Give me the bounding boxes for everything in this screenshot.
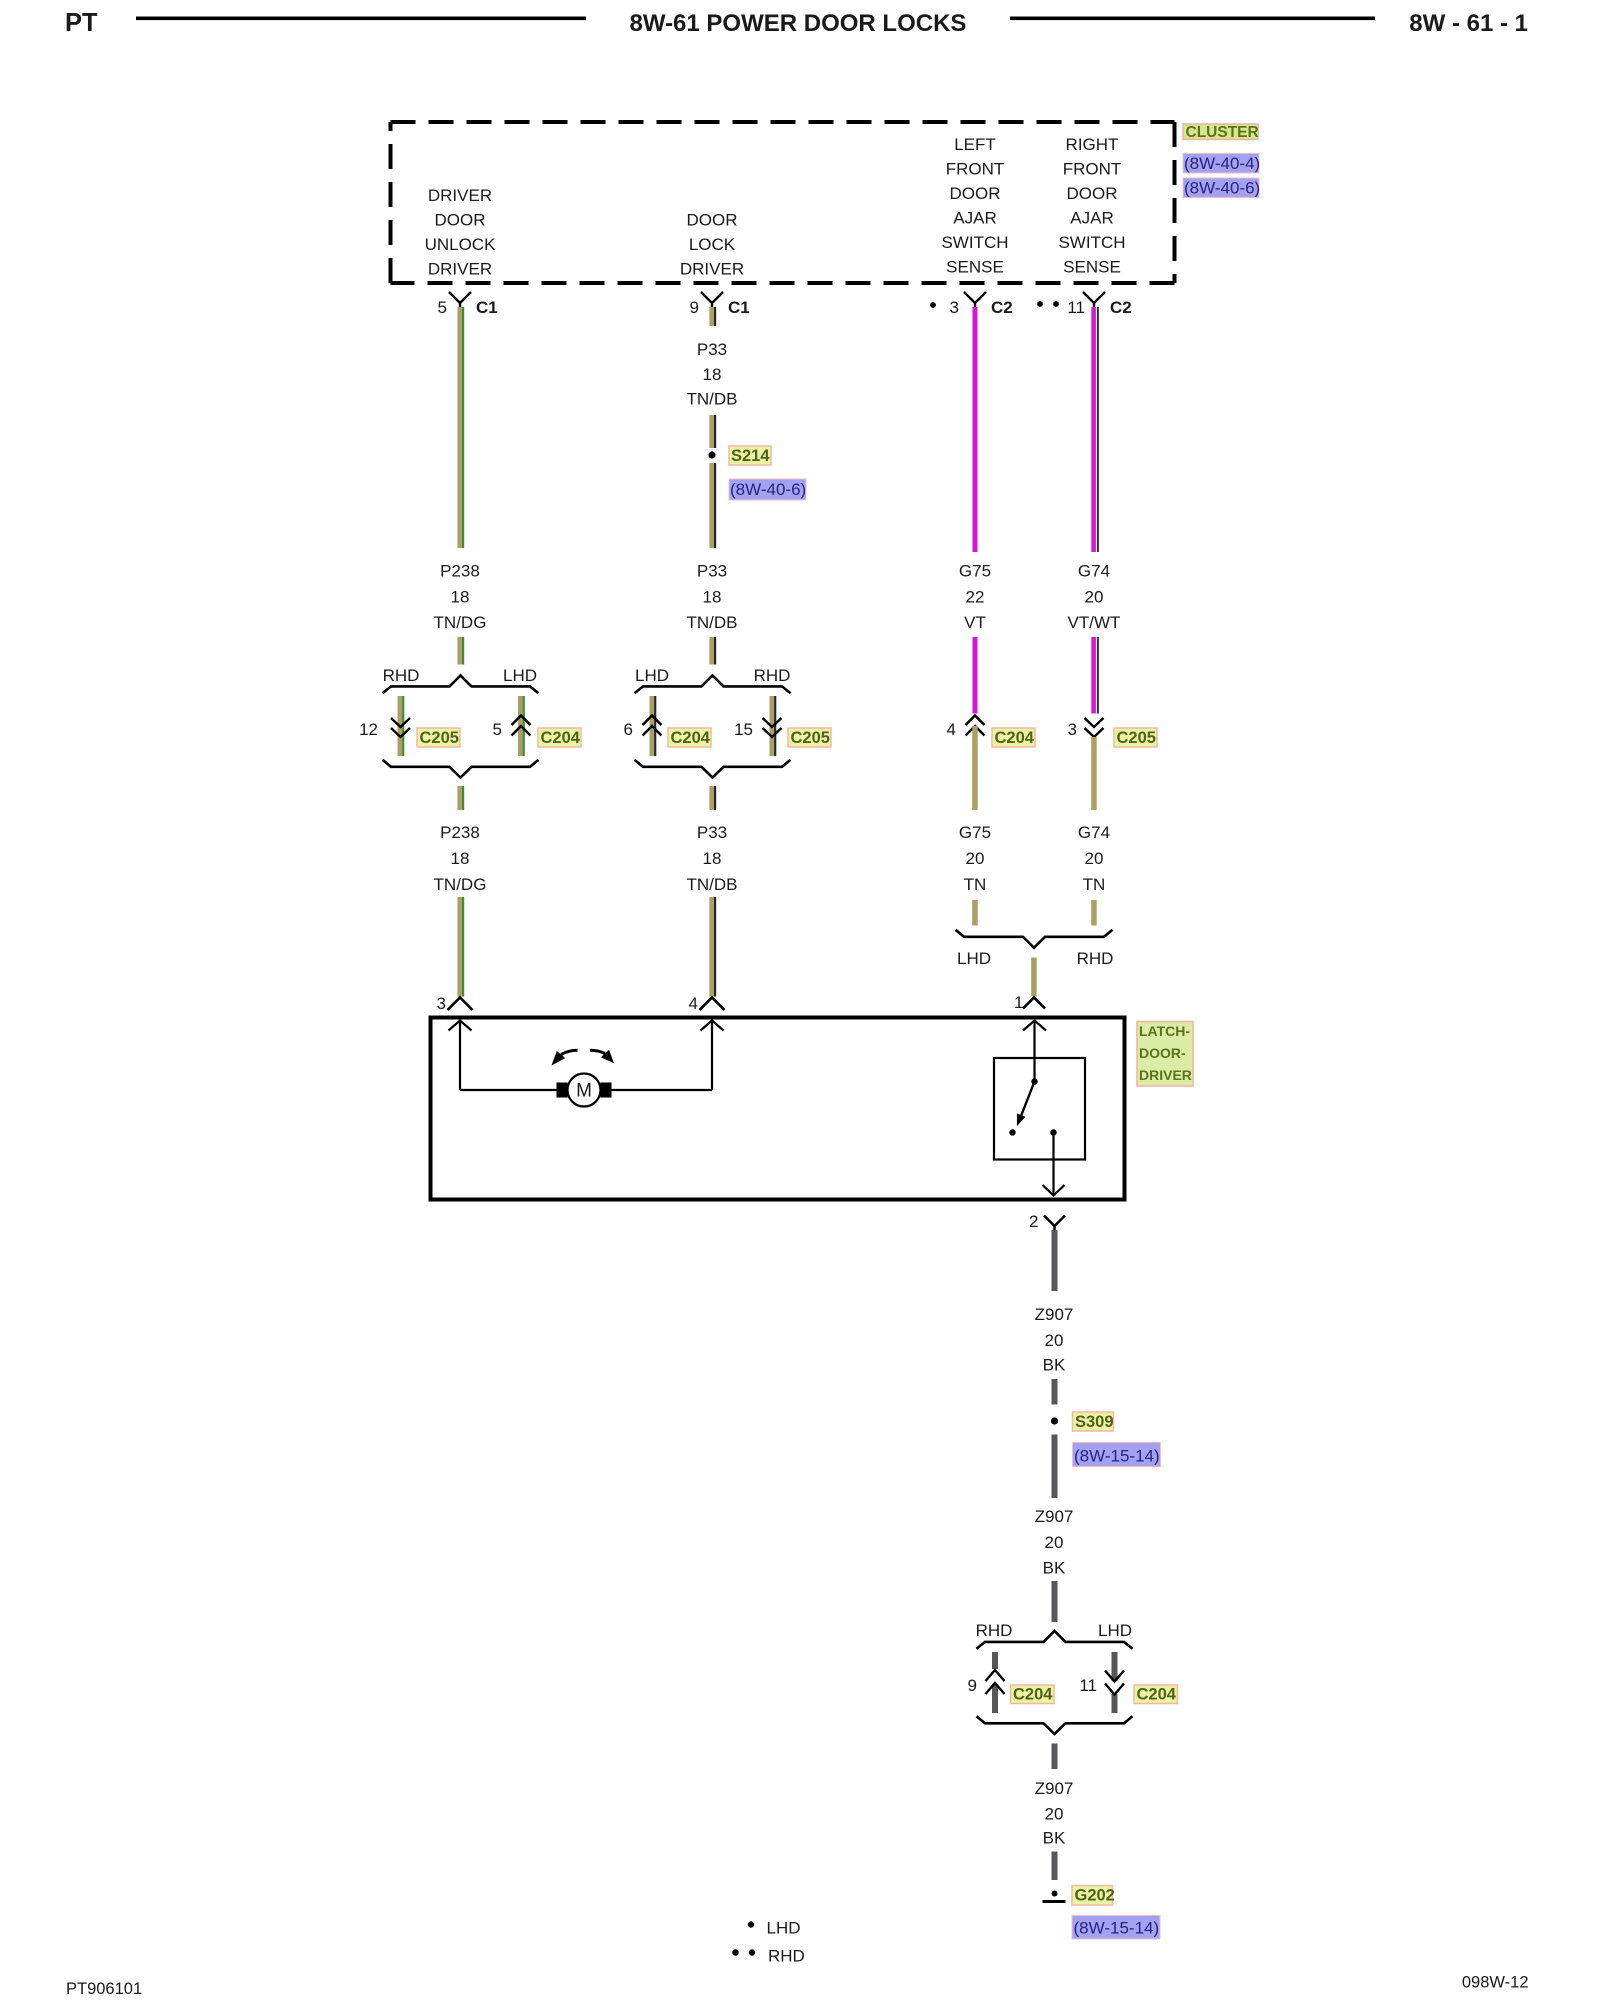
wire G75 short tan segment above merge — [972, 900, 978, 926]
svg-text:UNLOCK: UNLOCK — [425, 235, 497, 254]
cluster pin function text: driver door unlock driver — [425, 186, 497, 279]
motor rotation arrows — [552, 1050, 615, 1066]
connector C204 pin 11 (down chevrons) — [1079, 1671, 1124, 1696]
splice S214 reference 8W-40-6 — [729, 479, 806, 500]
svg-text:BK: BK — [1043, 1356, 1066, 1375]
svg-text:C204: C204 — [671, 729, 711, 747]
svg-text:4: 4 — [689, 994, 698, 1013]
svg-text:DOOR: DOOR — [950, 184, 1001, 203]
svg-text:11: 11 — [1079, 1676, 1097, 1695]
wire Z907 label 2 — [1035, 1507, 1074, 1578]
svg-text:DOOR: DOOR — [687, 211, 738, 230]
svg-text:G74: G74 — [1078, 562, 1110, 581]
latch pin 4 connector chevron — [689, 994, 725, 1013]
svg-text:12: 12 — [359, 720, 378, 739]
svg-text:DRIVER: DRIVER — [1139, 1067, 1192, 1083]
svg-text:(8W-40-4): (8W-40-4) — [1184, 154, 1260, 173]
svg-text:22: 22 — [966, 588, 985, 607]
svg-text:FRONT: FRONT — [946, 160, 1005, 179]
svg-text:C204: C204 — [1137, 1686, 1177, 1704]
cluster component label — [1183, 124, 1259, 141]
latch-door-driver box — [431, 1018, 1125, 1200]
connector pin 2 fork below latch — [1029, 1212, 1065, 1231]
wire branch RHD to C205 pin 15 — [770, 696, 777, 756]
svg-text:DOOR: DOOR — [1067, 184, 1118, 203]
wire Z907 segment 3 — [1052, 1435, 1058, 1499]
wire P33 segment below splice — [709, 463, 716, 548]
svg-text:LEFT: LEFT — [954, 135, 996, 154]
svg-text:20: 20 — [1045, 1331, 1064, 1350]
wire Z907 segment 4 — [1052, 1581, 1058, 1622]
svg-text:TN/DB: TN/DB — [687, 613, 738, 632]
option split brace P33 LHD/RHD — [635, 666, 791, 693]
wire G75 tan segment below C204 — [972, 726, 978, 810]
svg-text:(8W-40-6): (8W-40-6) — [730, 480, 806, 499]
wire G75 segment above C204 — [973, 637, 978, 714]
svg-text:LHD: LHD — [1098, 1621, 1132, 1640]
wire P33 segment from C1 — [709, 307, 716, 326]
svg-text:SWITCH: SWITCH — [1058, 233, 1125, 252]
svg-text:(8W-15-14): (8W-15-14) — [1074, 1447, 1160, 1466]
svg-text:DOOR-: DOOR- — [1139, 1045, 1186, 1061]
svg-text:SWITCH: SWITCH — [941, 233, 1008, 252]
ground G202 label — [1072, 1886, 1115, 1906]
connector C204 label (bottom RHD) — [1011, 1685, 1055, 1704]
svg-text:TN: TN — [1083, 875, 1106, 894]
wire branch RHD to C205 pin 12 — [398, 696, 405, 756]
svg-text:RIGHT: RIGHT — [1066, 135, 1119, 154]
svg-text:098W-12: 098W-12 — [1462, 1974, 1529, 1992]
svg-text:P238: P238 — [440, 823, 480, 842]
splice S309 reference 8W-15-14 — [1073, 1443, 1161, 1467]
wire Z907 segment 1 (BK) — [1052, 1230, 1058, 1291]
wire P33 lower segment — [709, 786, 716, 810]
option merge brace G75/G74 LHD/RHD — [956, 930, 1114, 968]
svg-text:20: 20 — [1085, 849, 1104, 868]
svg-text:C1: C1 — [728, 298, 750, 317]
wire Z907 segment 6 — [1052, 1852, 1058, 1881]
connector C204 label (G75) — [992, 728, 1035, 747]
wire P33 label — [687, 562, 738, 633]
svg-text:G75: G75 — [959, 562, 991, 581]
svg-text:3: 3 — [437, 994, 446, 1013]
footer right — [1462, 1974, 1529, 1992]
option merge brace P238 — [383, 760, 539, 778]
svg-text:8W-61 POWER DOOR LOCKS: 8W-61 POWER DOOR LOCKS — [630, 10, 967, 37]
footer left — [66, 1980, 142, 1998]
svg-text:AJAR: AJAR — [953, 209, 996, 228]
svg-text:LOCK: LOCK — [689, 235, 736, 254]
svg-text:G74: G74 — [1078, 823, 1110, 842]
svg-text:AJAR: AJAR — [1070, 209, 1113, 228]
svg-text:DRIVER: DRIVER — [428, 186, 492, 205]
option split brace Z907 RHD/LHD — [976, 1621, 1133, 1649]
wire Z907 segment 2 — [1052, 1379, 1058, 1405]
wire P33 short segment above split — [709, 637, 716, 665]
header title — [630, 10, 967, 37]
connector C2 pin 11 with RHD dots — [1037, 292, 1132, 317]
connector C1 pin 9 — [690, 292, 750, 317]
svg-text:VT: VT — [964, 613, 986, 632]
splice S309 label — [1073, 1412, 1114, 1431]
svg-text:C204: C204 — [995, 729, 1035, 747]
wire P33 segment to latch pin 4 — [709, 897, 716, 997]
ground G202 reference 8W-15-14 — [1072, 1916, 1160, 1940]
svg-text:TN/DB: TN/DB — [687, 390, 738, 409]
svg-text:LATCH-: LATCH- — [1139, 1023, 1190, 1039]
latch label — [1137, 1022, 1193, 1087]
svg-text:P33: P33 — [697, 823, 727, 842]
connector C1 pin 5 — [438, 292, 498, 317]
cluster module dashed box — [391, 122, 1175, 283]
svg-text:PT906101: PT906101 — [66, 1980, 142, 1998]
wire Z907 label 1 — [1035, 1305, 1074, 1375]
latch internal wire to motor left — [460, 1089, 557, 1091]
svg-text:BK: BK — [1043, 1829, 1066, 1848]
svg-text:TN/DG: TN/DG — [434, 613, 487, 632]
wire G74 upper segment (VT/WT) — [1091, 307, 1098, 552]
svg-text:BK: BK — [1043, 1559, 1066, 1578]
legend RHD dots — [732, 1947, 805, 1966]
svg-text:(8W-15-14): (8W-15-14) — [1074, 1919, 1160, 1938]
svg-text:TN/DB: TN/DB — [687, 875, 738, 894]
svg-text:Z907: Z907 — [1035, 1779, 1074, 1798]
svg-text:RHD: RHD — [754, 666, 791, 685]
svg-text:LHD: LHD — [503, 666, 537, 685]
splice S214 label — [729, 446, 771, 465]
svg-text:8W - 61 - 1: 8W - 61 - 1 — [1409, 10, 1528, 37]
svg-text:P33: P33 — [697, 340, 727, 359]
svg-text:C2: C2 — [991, 298, 1013, 317]
svg-text:S214: S214 — [731, 447, 770, 465]
connector C204 label (bottom LHD) — [1134, 1685, 1178, 1704]
svg-text:DOOR: DOOR — [435, 211, 486, 230]
svg-text:FRONT: FRONT — [1063, 160, 1122, 179]
connector C205 label (group2 RHD) — [788, 728, 831, 747]
connector C205 pin 3 (down chevrons) on G74 — [1068, 718, 1104, 739]
wire P33 label upper — [687, 340, 738, 409]
svg-text:18: 18 — [451, 588, 470, 607]
svg-text:6: 6 — [624, 720, 633, 739]
wire P238 lower label — [434, 823, 487, 894]
svg-text:4: 4 — [947, 720, 956, 739]
wire G74 label — [1068, 562, 1121, 633]
cluster pin function text: left front door ajar switch sense — [941, 135, 1008, 277]
latch internal wire pin 4 with up arrow — [701, 1020, 724, 1090]
svg-text:2: 2 — [1029, 1212, 1038, 1231]
svg-text:Z907: Z907 — [1035, 1305, 1074, 1324]
header rule right — [1010, 17, 1375, 21]
wire P238 upper segment (TN/DG) — [457, 307, 464, 548]
wire G74 lower label — [1078, 823, 1110, 894]
header right page number — [1409, 10, 1528, 37]
svg-text:RHD: RHD — [768, 1947, 805, 1966]
wire P238 lower segment — [457, 786, 464, 810]
wire G74 short tan segment above merge — [1091, 900, 1097, 926]
latch internal wire to motor right — [611, 1089, 712, 1091]
svg-text:5: 5 — [493, 720, 502, 739]
svg-text:LHD: LHD — [767, 1919, 801, 1938]
connector C204 pin 5 (up chevrons) — [493, 716, 531, 740]
header left PT — [65, 9, 98, 37]
svg-text:RHD: RHD — [1077, 949, 1114, 968]
svg-text:C205: C205 — [420, 729, 459, 747]
connector C204 pin 4 (up chevrons) on G75 — [947, 716, 985, 740]
wire branch LHD to C204 pin 5 — [518, 696, 525, 756]
svg-text:9: 9 — [690, 298, 699, 317]
wire G75 upper segment (VT) — [973, 307, 978, 552]
wire P238 segment to latch pin 3 — [457, 897, 464, 997]
svg-text:5: 5 — [438, 298, 447, 317]
svg-text:DRIVER: DRIVER — [428, 260, 492, 279]
svg-text:P238: P238 — [440, 562, 480, 581]
wire Z907 label 3 — [1035, 1779, 1074, 1848]
svg-text:18: 18 — [703, 849, 722, 868]
connector C204 label (group1 LHD) — [538, 728, 581, 747]
latch internal wire pin 3 with up arrow — [449, 1020, 472, 1090]
svg-text:TN: TN — [964, 875, 987, 894]
svg-text:C205: C205 — [791, 729, 830, 747]
svg-text:DRIVER: DRIVER — [680, 260, 744, 279]
svg-text:TN/DG: TN/DG — [434, 875, 487, 894]
ajar switch output wire with down arrow — [1043, 1136, 1065, 1196]
connector C204 pin 9 (up chevrons) — [968, 1670, 1005, 1695]
wire TN segment to latch pin 1 — [1031, 958, 1037, 997]
wire branch RHD to C204 pin 9 — [992, 1652, 998, 1713]
svg-text:G75: G75 — [959, 823, 991, 842]
svg-text:15: 15 — [734, 720, 753, 739]
latch pin 3 connector chevron — [437, 994, 473, 1013]
svg-text:LHD: LHD — [635, 666, 669, 685]
wire P33 segment to splice — [709, 415, 716, 448]
cluster pin function text: right front door ajar switch sense — [1058, 135, 1125, 277]
connector C204 label (group2 LHD) — [668, 728, 711, 747]
svg-text:18: 18 — [451, 849, 470, 868]
svg-text:S309: S309 — [1075, 1413, 1114, 1431]
cluster reference 8W-40-6 — [1183, 178, 1260, 198]
cluster reference 8W-40-4 — [1183, 154, 1260, 174]
svg-text:9: 9 — [968, 1676, 977, 1695]
svg-text:18: 18 — [703, 365, 722, 384]
cluster pin function text: door lock driver — [680, 211, 744, 279]
connector C2 pin 3 with LHD dot — [930, 292, 1013, 317]
svg-text:3: 3 — [1068, 720, 1077, 739]
option split brace P238 RHD/LHD — [383, 666, 539, 693]
splice S309 — [1051, 1417, 1058, 1424]
svg-text:Z907: Z907 — [1035, 1507, 1074, 1526]
svg-text:RHD: RHD — [976, 1621, 1013, 1640]
svg-text:LHD: LHD — [957, 949, 991, 968]
wire G74 segment above C205 — [1091, 637, 1098, 714]
svg-text:C204: C204 — [1013, 1686, 1053, 1704]
splice S214 — [708, 451, 715, 458]
connector C204 pin 6 (up chevrons) — [624, 716, 662, 740]
option merge brace P33 — [635, 760, 791, 778]
svg-text:C205: C205 — [1117, 729, 1156, 747]
connector C205 label (G74) — [1114, 728, 1157, 747]
svg-text:SENSE: SENSE — [946, 258, 1004, 277]
option merge brace Z907 — [977, 1716, 1133, 1734]
ajar switch pivot and blade — [1009, 1078, 1056, 1135]
legend LHD dot — [748, 1919, 801, 1938]
ground G202 symbol — [1043, 1891, 1066, 1904]
wire G75 lower label — [959, 823, 991, 894]
svg-text:C2: C2 — [1110, 298, 1132, 317]
wire P238 short segment above split — [457, 637, 464, 665]
header rule left — [136, 17, 586, 21]
latch internal wire pin 1 with up arrow — [1023, 1020, 1046, 1081]
svg-text:20: 20 — [1045, 1533, 1064, 1552]
svg-text:18: 18 — [703, 588, 722, 607]
svg-text:C204: C204 — [541, 729, 581, 747]
connector C205 label (group1 RHD) — [417, 728, 460, 747]
svg-text:G202: G202 — [1075, 1887, 1115, 1905]
svg-text:20: 20 — [966, 849, 985, 868]
ajar switch box — [994, 1058, 1085, 1160]
svg-text:SENSE: SENSE — [1063, 258, 1121, 277]
svg-text:CLUSTER: CLUSTER — [1186, 124, 1259, 141]
svg-text:VT/WT: VT/WT — [1068, 613, 1121, 632]
svg-text:11: 11 — [1067, 298, 1085, 317]
svg-text:M: M — [576, 1081, 592, 1102]
wire Z907 segment 5 — [1052, 1744, 1058, 1770]
svg-text:20: 20 — [1085, 588, 1104, 607]
svg-text:(8W-40-6): (8W-40-6) — [1184, 179, 1260, 198]
svg-text:3: 3 — [950, 298, 959, 317]
wire P238 label — [434, 562, 487, 633]
wire G75 label — [959, 562, 991, 633]
wire branch LHD to C204 pin 11 — [1112, 1652, 1118, 1713]
connector C205 pin 12 (down chevrons) — [359, 718, 410, 739]
wire P33 lower label — [687, 823, 738, 894]
svg-text:P33: P33 — [697, 562, 727, 581]
wire branch LHD to C204 pin 6 — [650, 696, 657, 756]
svg-text:PT: PT — [65, 9, 98, 37]
svg-text:20: 20 — [1045, 1805, 1064, 1824]
wire G74 tan segment below C205 — [1091, 737, 1097, 810]
svg-text:1: 1 — [1014, 993, 1023, 1012]
motor M — [557, 1074, 612, 1107]
svg-text:RHD: RHD — [383, 666, 420, 685]
latch pin 1 connector chevron — [1014, 993, 1045, 1012]
svg-text:C1: C1 — [476, 298, 498, 317]
connector C205 pin 15 (down chevrons) — [734, 718, 781, 739]
